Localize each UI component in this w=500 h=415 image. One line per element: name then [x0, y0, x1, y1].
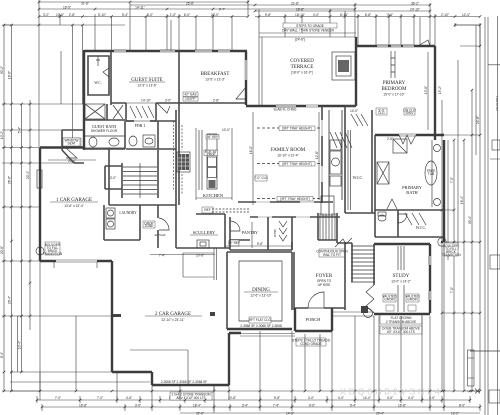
- svg-text:12'-4": 12'-4": [462, 13, 470, 17]
- svg-text:7'-6": 7'-6": [387, 13, 393, 17]
- door arc: [398, 214, 407, 223]
- island: [207, 134, 217, 189]
- wall: bedroom right exterior: [434, 46, 436, 135]
- svg-text:9'-6": 9'-6": [257, 242, 263, 246]
- wall: garage right: [108, 148, 110, 206]
- svg-text:7'-4": 7'-4": [159, 254, 165, 258]
- svg-text:PANTRY: PANTRY: [242, 230, 258, 235]
- wall: family right: [321, 106, 323, 203]
- garage bottom wall + door: [40, 261, 112, 272]
- dimension lines: left side: [0, 25, 150, 391]
- left bay window: [62, 130, 84, 163]
- svg-text:10'-2": 10'-2": [0, 131, 4, 139]
- svg-text:BREAKFAST: BREAKFAST: [201, 72, 230, 77]
- double doors study: [366, 285, 374, 313]
- svg-text:4'-6": 4'-6": [126, 396, 132, 400]
- svg-text:UP RISE: UP RISE: [318, 283, 331, 287]
- svg-text:16'-8": 16'-8": [79, 404, 87, 408]
- svg-text:9'-8": 9'-8": [265, 13, 271, 17]
- svg-text:1'-0": 1'-0": [170, 13, 176, 17]
- svg-text:13'-8": 13'-8": [424, 86, 428, 94]
- svg-text:GUEST SUITE: GUEST SUITE: [131, 78, 162, 83]
- driveway thin lines: [18, 242, 445, 413]
- svg-text:PRIMARY: PRIMARY: [383, 81, 406, 86]
- svg-text:14'-11": 14'-11": [135, 5, 145, 9]
- svg-text:21'-8": 21'-8": [291, 2, 299, 6]
- spine wall: [176, 110, 179, 205]
- svg-text:7'-0" CLG: 7'-0" CLG: [254, 176, 268, 180]
- wall: bedroom bottom: [375, 135, 444, 140]
- svg-text:PDR 1: PDR 1: [135, 123, 146, 128]
- svg-text:10'-4": 10'-4": [18, 341, 22, 349]
- wall: W.C. room inner: [88, 56, 109, 95]
- dimension lines: right side: [438, 25, 500, 394]
- svg-text:8'-4": 8'-4": [0, 352, 4, 358]
- svg-text:7'-4": 7'-4": [273, 404, 279, 408]
- sink 1: [434, 145, 441, 152]
- svg-text:3'-4": 3'-4": [242, 404, 248, 408]
- shower: [393, 139, 407, 153]
- interior dim lines: [141, 20, 428, 248]
- dining bottom wall w/ windows: [227, 328, 292, 330]
- label boxes kitchen top: [183, 92, 198, 97]
- svg-text:1 CAR GARAGE: 1 CAR GARAGE: [56, 198, 92, 203]
- svg-text:31'-8": 31'-8": [81, 2, 89, 6]
- garage 2: [112, 248, 241, 400]
- svg-text:2'-8": 2'-8": [69, 13, 75, 17]
- svg-text:20'-8": 20'-8": [0, 246, 4, 254]
- wall: top wall guest suite / breakfast: [84, 50, 247, 150]
- stairs to 2nd floor: [316, 213, 375, 282]
- terrace open edge top: [259, 33, 356, 106]
- tray ceiling dashed lines: [257, 128, 320, 199]
- svg-text:20'-4": 20'-4": [26, 171, 30, 179]
- svg-text:[9FT TRAY HEIGHT]: [9FT TRAY HEIGHT]: [280, 197, 309, 201]
- svg-text:16'-10" x 22'-4": 16'-10" x 22'-4": [277, 154, 298, 158]
- svg-text:PORCH: PORCH: [306, 317, 321, 322]
- wall: family bottom: [238, 201, 333, 203]
- chimney corner: [418, 40, 430, 46]
- svg-text:7'-0": 7'-0": [450, 287, 454, 293]
- label box: steps to grade: [283, 23, 337, 28]
- svg-text:STEPS TO GRADE: STEPS TO GRADE: [296, 24, 324, 28]
- svg-text:14'-0": 14'-0": [350, 109, 358, 113]
- label boxes below study: [380, 315, 422, 334]
- svg-text:7'-0": 7'-0": [55, 396, 61, 400]
- svg-text:BATH: BATH: [406, 190, 418, 195]
- long drop lines from top dims: [61, 11, 420, 147]
- dashed attic: [212, 209, 250, 212]
- svg-text:2-3068 SF 2-3068 SF 2-3068: 2-3068 SF 2-3068 SF 2-3068: [240, 324, 282, 328]
- svg-text:TRANSITION: TRANSITION: [43, 252, 63, 256]
- svg-text:12'-0": 12'-0": [211, 13, 219, 17]
- svg-text:5'-10": 5'-10": [98, 13, 106, 17]
- sheet edge right: [470, 16, 500, 415]
- svg-text:16'-8": 16'-8": [398, 404, 406, 408]
- svg-text:7'-0": 7'-0": [97, 396, 103, 400]
- svg-text:PROF: PROF: [207, 152, 216, 156]
- svg-text:9'-8": 9'-8": [274, 396, 280, 400]
- interior dim lines kitchen: [196, 128, 232, 200]
- svg-text:22'-10" x 23'-11": 22'-10" x 23'-11": [162, 318, 185, 322]
- wall: guest suite bottom: [111, 102, 246, 104]
- svg-text:28'-4": 28'-4": [8, 296, 12, 304]
- wall: family top (terrace bottom): [246, 105, 356, 107]
- svg-text:7'-0": 7'-0": [450, 177, 454, 183]
- svg-text:13'-0" x 14'-2": 13'-0" x 14'-2": [391, 280, 411, 284]
- svg-text:9'-7": 9'-7": [219, 8, 225, 12]
- fireplace / cabinets between family and WIC: [318, 110, 352, 243]
- label boxes: [383, 294, 396, 302]
- svg-text:24'-8": 24'-8": [476, 116, 480, 124]
- svg-text:25'-8": 25'-8": [186, 2, 194, 6]
- range island: [177, 152, 190, 172]
- svg-text:4'-0": 4'-0": [313, 13, 319, 17]
- svg-text:9'-0": 9'-0": [309, 404, 315, 408]
- 1 car garage: [36, 138, 112, 272]
- svg-text:BEDROOM: BEDROOM: [381, 87, 407, 92]
- svg-text:GROIN: GROIN: [407, 298, 418, 302]
- svg-text:36'-8": 36'-8": [8, 176, 12, 184]
- foyer: [294, 242, 345, 310]
- stair break line: [335, 238, 352, 247]
- long drop lines to bottom dims: [40, 242, 444, 413]
- svg-text:TRANSITION: TRANSITION: [441, 253, 461, 257]
- dimension lines: bottom rows: [10, 391, 480, 415]
- svg-text:SEAT: SEAT: [67, 142, 75, 146]
- window left wall: [37, 170, 42, 188]
- svg-text:COND GRADE: COND GRADE: [300, 342, 322, 346]
- svg-text:W.C.: W.C.: [94, 81, 101, 85]
- svg-text:TUB: TUB: [428, 172, 434, 176]
- svg-text:12'-6" x 13'-10": 12'-6" x 13'-10": [250, 294, 271, 298]
- svg-text:SHLV: SHLV: [405, 111, 414, 115]
- kitchen: [174, 72, 233, 205]
- svg-text:18'-4": 18'-4": [193, 404, 201, 408]
- svg-text:8'-0": 8'-0": [459, 404, 465, 408]
- door: house to garage: [66, 148, 77, 158]
- svg-text:16'-0": 16'-0": [249, 146, 253, 154]
- svg-text:3'-0": 3'-0": [135, 404, 141, 408]
- east exterior corner w/ column: [438, 237, 462, 257]
- svg-text:9FT FLAT CLG: 9FT FLAT CLG: [249, 318, 271, 322]
- svg-text:13'-6" x 22'-4": 13'-6" x 22'-4": [64, 204, 84, 208]
- svg-text:CLG: CLG: [378, 111, 385, 115]
- svg-text:4'-0": 4'-0": [338, 396, 344, 400]
- svg-text:[9FT TRAY HEIGHT]: [9FT TRAY HEIGHT]: [282, 126, 311, 130]
- scullery: [150, 205, 250, 258]
- svg-text:12'-8": 12'-8": [315, 151, 319, 159]
- svg-text:2'-8": 2'-8": [213, 99, 219, 103]
- family room: [183, 92, 356, 205]
- svg-text:16'-8": 16'-8": [296, 8, 304, 12]
- svg-text:5'-4": 5'-4": [18, 127, 22, 133]
- study bottom wall hatched: [374, 313, 430, 315]
- pantry + wine: [230, 217, 292, 250]
- svg-text:15'-2": 15'-2": [438, 86, 442, 94]
- svg-text:2 CAR GARAGE: 2 CAR GARAGE: [155, 312, 191, 317]
- svg-text:36'-2": 36'-2": [411, 2, 419, 6]
- door: breakfast to terrace: [236, 87, 246, 99]
- shower with X: [85, 104, 105, 119]
- svg-text:DINING: DINING: [252, 288, 270, 293]
- svg-text:COVERED: COVERED: [290, 59, 314, 64]
- svg-text:ABV 4'X10" 400 LTS: ABV 4'X10" 400 LTS: [176, 396, 205, 400]
- svg-text:18'-10": 18'-10": [295, 13, 305, 17]
- svg-text:9'-4": 9'-4": [350, 404, 356, 408]
- porch: [292, 306, 374, 346]
- W.I.C. 1: [330, 106, 375, 213]
- svg-text:16'-4": 16'-4": [460, 196, 464, 204]
- svg-text:2-3068 SF 2-3068 SF 2-3068 SF: 2-3068 SF 2-3068 SF 2-3068 SF: [161, 380, 207, 384]
- svg-text:8'-0": 8'-0": [147, 13, 153, 17]
- svg-text:STUDY: STUDY: [393, 274, 410, 279]
- svg-text:14'-10": 14'-10": [141, 99, 151, 103]
- svg-text:13'-5" x 13'-3": 13'-5" x 13'-3": [205, 78, 225, 82]
- svg-text:AIRWAY: AIRWAY: [154, 233, 166, 237]
- svg-text:15'-0" x 17'-10": 15'-0" x 17'-10": [383, 93, 404, 97]
- dimension lines: top tier 1: [4, 0, 480, 147]
- counters dashed: [174, 121, 183, 195]
- svg-text:[24'-8"]: [24'-8"]: [295, 38, 305, 42]
- closet 3'-0: [105, 166, 122, 189]
- linen closet X: [377, 162, 389, 184]
- dimension ticks top: [39, 0, 480, 147]
- svg-text:10'-8": 10'-8": [196, 254, 204, 258]
- svg-text:30'-2": 30'-2": [0, 66, 4, 74]
- hanging rods: [351, 114, 368, 126]
- guest bath: [84, 104, 176, 149]
- svg-text:FAMILY ROOM: FAMILY ROOM: [271, 148, 306, 153]
- window seat bedroom: [391, 51, 395, 78]
- svg-text:30'-4": 30'-4": [468, 216, 472, 224]
- svg-text:16'-5": 16'-5": [63, 5, 71, 9]
- svg-text:4'-0": 4'-0": [308, 396, 314, 400]
- svg-text:4'-0": 4'-0": [387, 396, 393, 400]
- toilet: [378, 215, 386, 221]
- svg-text:[9FT TRAY HEIGHT]: [9FT TRAY HEIGHT]: [282, 162, 311, 166]
- interior dim family left: [252, 112, 254, 205]
- svg-text:PRELIM SET: PRELIM SET: [495, 96, 499, 112]
- svg-text:8'-10": 8'-10": [340, 13, 348, 17]
- hall walls below family: [230, 217, 340, 250]
- sink 2: [434, 199, 441, 206]
- svg-text:W.I.C.: W.I.C.: [416, 225, 426, 230]
- svg-text:RAIL TO FIT: RAIL TO FIT: [323, 253, 341, 257]
- svg-text:5'-4": 5'-4": [122, 13, 128, 17]
- wall: terrace right / bedroom left: [355, 37, 357, 106]
- svg-text:3'-2": 3'-2": [43, 13, 49, 17]
- wall: bedroom top: [356, 45, 435, 47]
- svg-text:6'-0": 6'-0": [184, 13, 190, 17]
- svg-text:36" REF: 36" REF: [207, 135, 219, 139]
- svg-text:2'-10": 2'-10": [441, 13, 449, 17]
- closet rods: [130, 106, 154, 118]
- laundry / mud: [104, 205, 176, 248]
- svg-text:10'-0": 10'-0": [222, 128, 230, 132]
- svg-text:TERRACE: TERRACE: [291, 65, 314, 70]
- door: guest suite: [157, 103, 170, 113]
- svg-text:3'-0": 3'-0": [110, 176, 116, 180]
- svg-text:SCULLERY: SCULLERY: [193, 230, 216, 235]
- dining: [227, 252, 292, 329]
- svg-text:18'-6": 18'-6": [8, 71, 12, 79]
- svg-text:W.I.C.: W.I.C.: [353, 175, 363, 180]
- svg-text:3'-0": 3'-0": [165, 99, 171, 103]
- wall: guest suite left / closet: [110, 51, 112, 105]
- vanity: [85, 136, 125, 148]
- closet below guest suite: [111, 103, 126, 121]
- fireplace: terrace: [332, 52, 355, 80]
- svg-text:XDQ8HB2VSNL4: XDQ8HB2VSNL4: [340, 387, 443, 397]
- svg-text:[18'-0" x 16'-0"]: [18'-0" x 16'-0"]: [291, 71, 312, 75]
- svg-text:SHOWER FLOOR: SHOWER FLOOR: [91, 129, 118, 133]
- svg-text:ZONE: ZONE: [145, 224, 154, 228]
- svg-text:KITCHEN: KITCHEN: [203, 193, 224, 198]
- svg-text:GROIN: GROIN: [384, 298, 395, 302]
- svg-text:LIN FP: LIN FP: [186, 97, 196, 101]
- study: [366, 244, 430, 314]
- toilet room + WIC2: [375, 210, 444, 237]
- room label: guest suite: [111, 78, 170, 121]
- door hinge marks: [113, 314, 121, 317]
- wall: guest suite / breakfast divider: [178, 51, 180, 110]
- svg-text:4'-0": 4'-0": [408, 396, 414, 400]
- primary bath: [375, 108, 444, 238]
- svg-text:13'-3" x 13'-6": 13'-3" x 13'-6": [137, 84, 157, 88]
- covered terrace: [259, 23, 356, 106]
- svg-text:24'-10": 24'-10": [410, 8, 420, 12]
- garage apron stubs: [54, 262, 97, 268]
- vanity counter: [431, 140, 433, 207]
- svg-text:2'-6": 2'-6": [387, 137, 393, 141]
- front door arc: [308, 292, 324, 308]
- svg-text:REF: REF: [204, 208, 210, 212]
- stairs basement: [105, 150, 158, 198]
- center built-in strip: [398, 246, 404, 312]
- terrace edge to study: [332, 312, 374, 316]
- primary bedroom: [356, 40, 444, 144]
- svg-text:14'-0": 14'-0": [363, 396, 371, 400]
- detail rect right bottom: [468, 350, 475, 386]
- wall: breakfast right exterior: [245, 51, 247, 105]
- tub: [425, 161, 437, 185]
- svg-text:LAUNDRY: LAUNDRY: [119, 211, 137, 215]
- wall: W.C. left exterior: [83, 50, 85, 150]
- svg-text:42" GAS: 42" GAS: [184, 92, 196, 96]
- svg-text:DRY WALL / THIN STONE VENEER: DRY WALL / THIN STONE VENEER: [282, 29, 334, 33]
- svg-text:WINE: WINE: [273, 229, 277, 237]
- column circle: [36, 247, 44, 255]
- svg-text:SLAB FL CHNG: SLAB FL CHNG: [274, 108, 297, 112]
- svg-text:6'-8": 6'-8": [365, 13, 371, 17]
- door: double doors to bath: [399, 135, 416, 144]
- door arc airway: [159, 218, 169, 230]
